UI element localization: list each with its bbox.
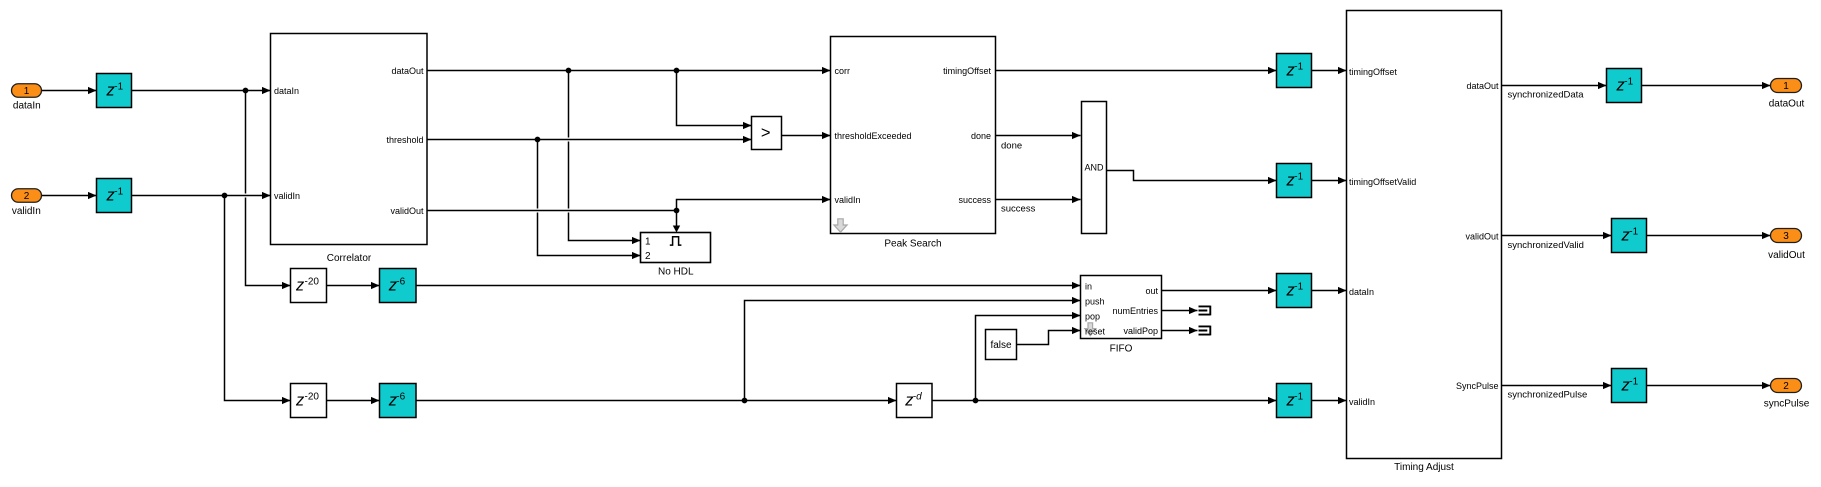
svg-text:dataIn: dataIn bbox=[13, 101, 41, 112]
svg-text:1: 1 bbox=[645, 236, 651, 247]
svg-text:AND: AND bbox=[1084, 163, 1104, 173]
svg-text:synchronizedPulse: synchronizedPulse bbox=[1508, 390, 1588, 401]
svg-text:pop: pop bbox=[1085, 312, 1100, 322]
svg-text:2: 2 bbox=[645, 251, 651, 262]
svg-text:-1: -1 bbox=[1294, 282, 1303, 293]
svg-text:>: > bbox=[761, 124, 771, 142]
svg-text:1: 1 bbox=[1783, 81, 1789, 92]
svg-text:-6: -6 bbox=[396, 392, 405, 403]
svg-text:syncPulse: syncPulse bbox=[1764, 398, 1810, 409]
svg-text:corr: corr bbox=[835, 66, 851, 76]
svg-text:Peak Search: Peak Search bbox=[884, 239, 941, 250]
svg-text:dataOut: dataOut bbox=[1466, 81, 1499, 91]
svg-text:done: done bbox=[1001, 141, 1022, 152]
svg-text:synchronizedValid: synchronizedValid bbox=[1508, 240, 1584, 251]
svg-text:-1: -1 bbox=[1294, 62, 1303, 73]
svg-text:timingOffsetValid: timingOffsetValid bbox=[1349, 177, 1416, 187]
svg-text:SyncPulse: SyncPulse bbox=[1456, 381, 1499, 391]
svg-text:out: out bbox=[1145, 286, 1158, 296]
svg-text:FIFO: FIFO bbox=[1110, 344, 1133, 355]
svg-text:-1: -1 bbox=[1294, 392, 1303, 403]
svg-text:synchronizedData: synchronizedData bbox=[1508, 90, 1585, 101]
svg-text:numEntries: numEntries bbox=[1112, 306, 1158, 316]
svg-text:-1: -1 bbox=[1294, 172, 1303, 183]
svg-text:-20: -20 bbox=[305, 392, 320, 403]
svg-text:validIn: validIn bbox=[835, 195, 861, 205]
svg-text:-1: -1 bbox=[114, 82, 123, 93]
svg-text:reset: reset bbox=[1085, 327, 1106, 337]
svg-text:2: 2 bbox=[1783, 381, 1789, 392]
svg-text:success: success bbox=[958, 195, 991, 205]
svg-text:-1: -1 bbox=[1629, 377, 1638, 388]
svg-text:z: z bbox=[295, 277, 305, 295]
svg-text:Timing Adjust: Timing Adjust bbox=[1394, 462, 1454, 473]
svg-text:1: 1 bbox=[24, 86, 30, 97]
svg-text:dataOut: dataOut bbox=[391, 66, 424, 76]
svg-text:validPop: validPop bbox=[1123, 326, 1158, 336]
svg-text:No HDL: No HDL bbox=[658, 266, 694, 277]
svg-text:push: push bbox=[1085, 297, 1105, 307]
svg-text:z: z bbox=[295, 392, 305, 410]
svg-text:dataIn: dataIn bbox=[274, 86, 299, 96]
svg-text:threshold: threshold bbox=[386, 135, 423, 145]
svg-text:-6: -6 bbox=[396, 277, 405, 288]
svg-text:2: 2 bbox=[24, 191, 30, 202]
svg-text:thresholdExceeded: thresholdExceeded bbox=[835, 131, 912, 141]
svg-text:timingOffset: timingOffset bbox=[1349, 67, 1397, 77]
svg-text:done: done bbox=[971, 131, 991, 141]
svg-text:validIn: validIn bbox=[1349, 397, 1375, 407]
svg-text:timingOffset: timingOffset bbox=[943, 66, 991, 76]
svg-text:-20: -20 bbox=[305, 277, 320, 288]
svg-text:3: 3 bbox=[1783, 231, 1789, 242]
svg-text:-1: -1 bbox=[1629, 227, 1638, 238]
svg-text:validOut: validOut bbox=[1768, 250, 1805, 261]
svg-text:success: success bbox=[1001, 204, 1036, 215]
svg-text:dataIn: dataIn bbox=[1349, 287, 1374, 297]
svg-text:validOut: validOut bbox=[1465, 232, 1499, 242]
svg-text:-1: -1 bbox=[1624, 77, 1633, 88]
svg-text:-1: -1 bbox=[114, 187, 123, 198]
svg-text:Correlator: Correlator bbox=[327, 253, 372, 264]
svg-text:false: false bbox=[990, 340, 1012, 351]
svg-text:validIn: validIn bbox=[12, 206, 41, 217]
svg-text:in: in bbox=[1085, 282, 1092, 292]
svg-text:-d: -d bbox=[913, 392, 922, 403]
svg-text:validIn: validIn bbox=[274, 191, 300, 201]
svg-text:dataOut: dataOut bbox=[1769, 99, 1805, 110]
svg-text:validOut: validOut bbox=[390, 206, 424, 216]
